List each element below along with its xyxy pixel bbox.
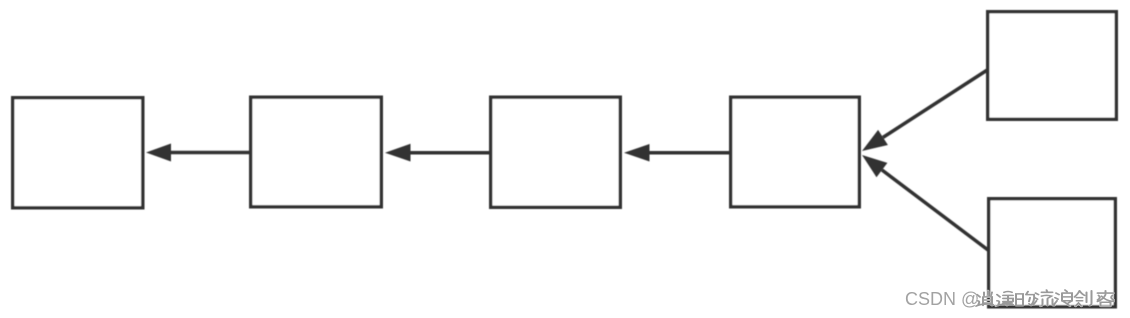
svg-text:CSDN @: CSDN @ [905,289,979,309]
